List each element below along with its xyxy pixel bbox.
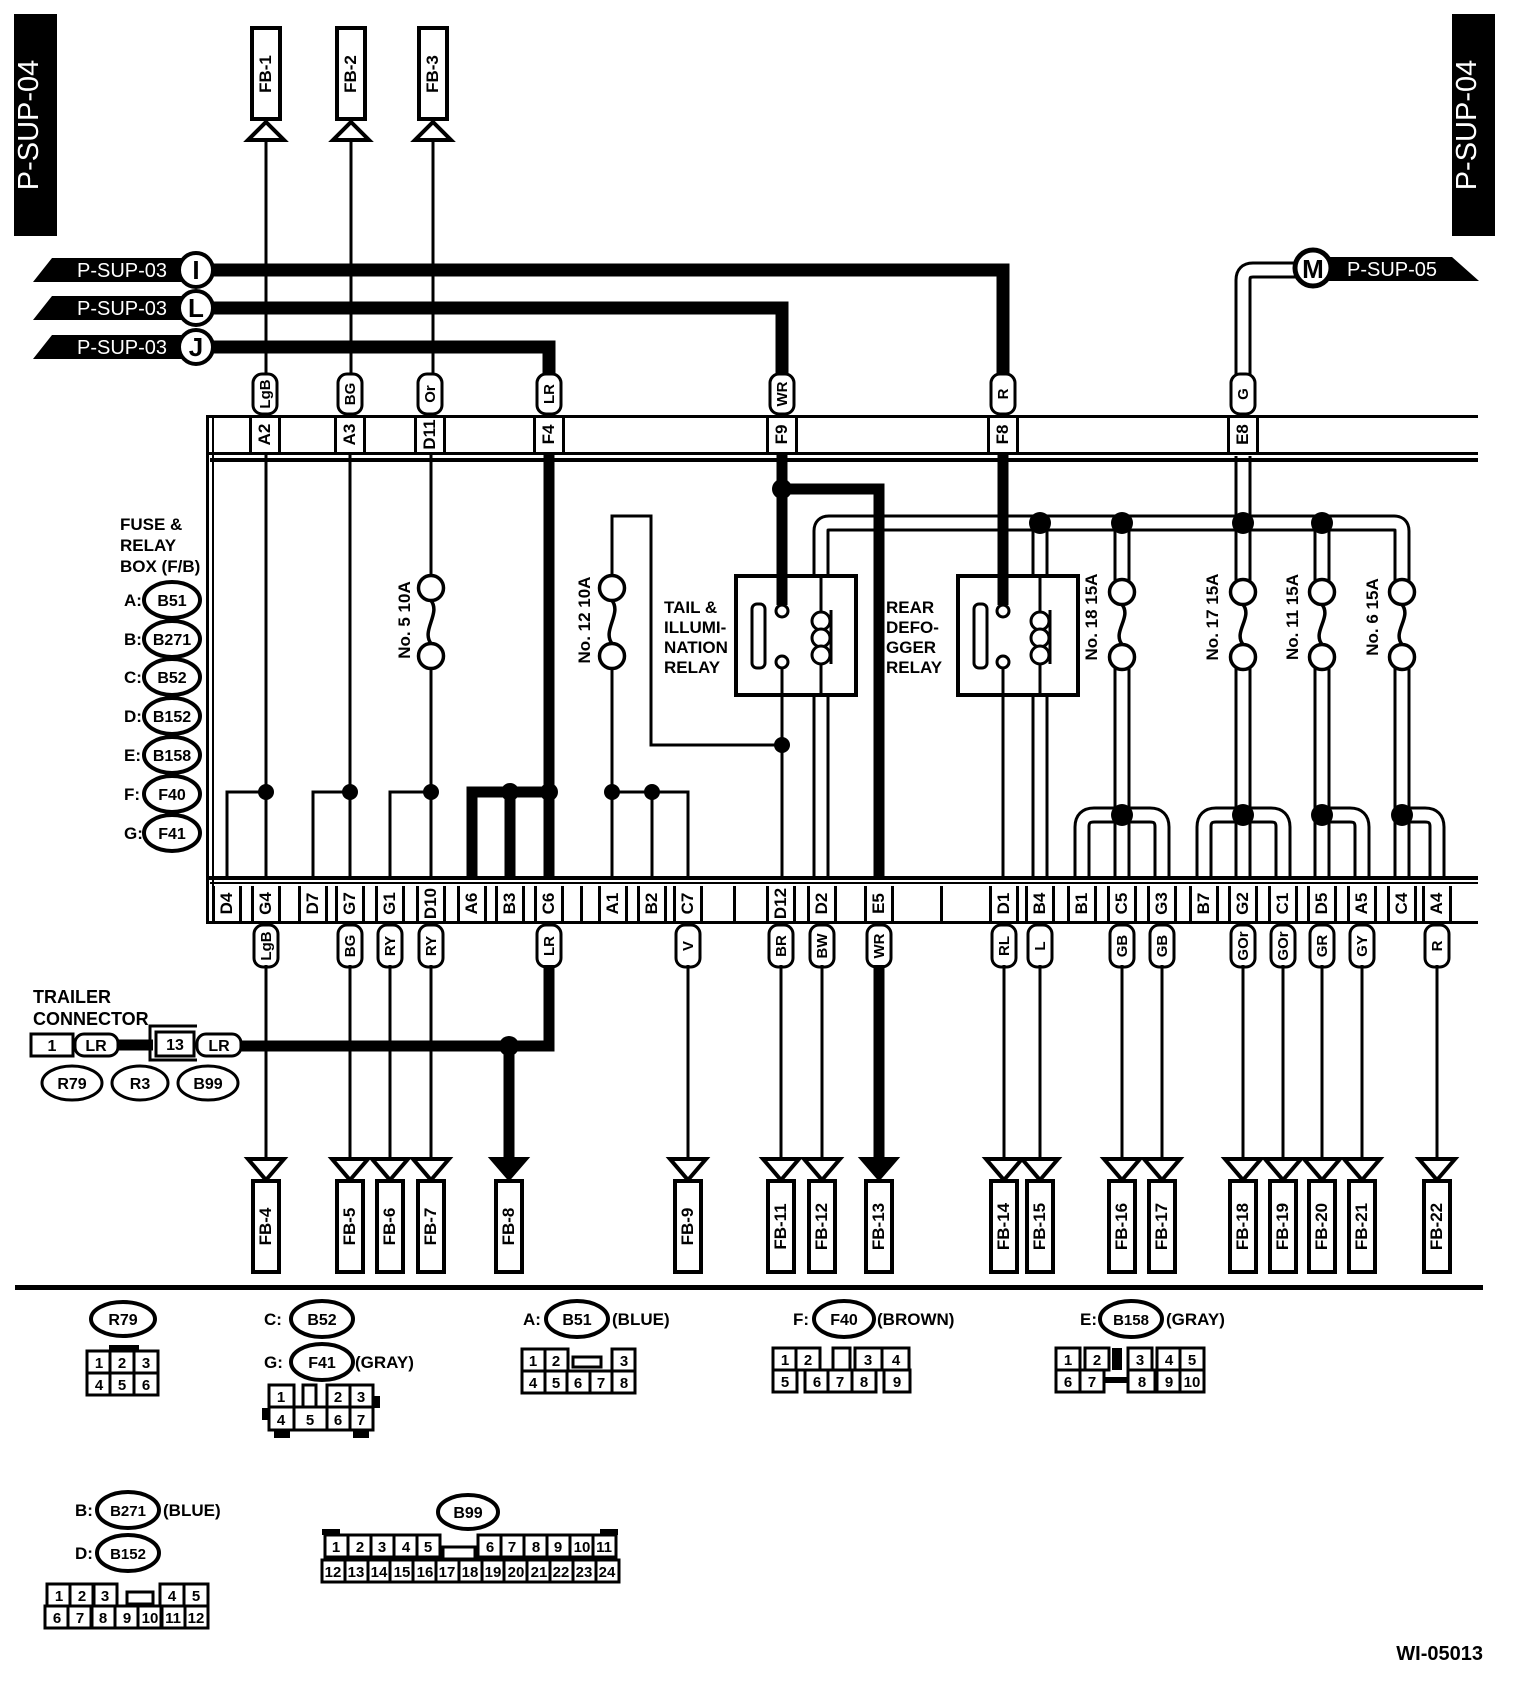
svg-text:G:: G:	[124, 824, 143, 843]
bus terminal A1	[580, 886, 628, 921]
wire colour tag LR (4)	[537, 925, 561, 967]
svg-text:2: 2	[552, 1353, 560, 1370]
hollow wire branch to G3	[1122, 815, 1162, 876]
svg-text:I: I	[192, 255, 199, 285]
svg-text:B99: B99	[193, 1076, 222, 1093]
svg-text:4: 4	[168, 1588, 177, 1605]
connector B: B271 (BLUE)	[75, 1492, 221, 1528]
connector R3 (trailer)	[112, 1066, 168, 1100]
svg-text:6: 6	[142, 1377, 150, 1394]
junction tail/defogger coil node	[1029, 512, 1051, 534]
connector FB-21	[1344, 1159, 1380, 1272]
wire FB-1 to bus	[265, 140, 268, 378]
svg-text:B51: B51	[157, 593, 186, 610]
fuse No. 12 10A	[575, 576, 625, 669]
wire colour tag GOr (13)	[1231, 925, 1255, 967]
svg-text:3: 3	[142, 1355, 150, 1372]
svg-text:F9: F9	[772, 425, 791, 445]
svg-text:LR: LR	[208, 1038, 230, 1055]
svg-text:L: L	[1032, 941, 1049, 950]
svg-text:BG: BG	[342, 383, 359, 406]
wire to FB-4	[265, 965, 268, 1158]
page label P-SUP-04 (top right)	[1451, 14, 1495, 236]
wire colour tag BG (1)	[338, 925, 362, 967]
connector legend A: B51	[124, 582, 200, 618]
svg-text:R79: R79	[57, 1076, 86, 1093]
svg-text:FB-6: FB-6	[380, 1208, 399, 1246]
svg-text:8: 8	[1138, 1374, 1146, 1391]
svg-text:A5: A5	[1352, 893, 1371, 915]
fuse box bottom bus bar	[206, 876, 1478, 924]
svg-text:19: 19	[485, 1564, 502, 1581]
svg-text:B51: B51	[562, 1312, 591, 1329]
svg-text:6: 6	[53, 1610, 61, 1627]
wire F8 to rear defogger relay (thick)	[998, 453, 1009, 606]
fuse No. 17 15A	[1203, 574, 1256, 670]
svg-text:B52: B52	[157, 670, 186, 687]
svg-text:D2: D2	[812, 893, 831, 915]
wire A6/B3 branch (thick)	[472, 792, 549, 876]
svg-text:BR: BR	[773, 935, 790, 957]
connector E: B158 (GRAY) pinout	[1056, 1301, 1225, 1392]
fuse No. 18 15A	[1082, 574, 1135, 670]
svg-text:21: 21	[531, 1564, 548, 1581]
svg-text:C1: C1	[1273, 893, 1292, 915]
svg-text:NATION: NATION	[664, 638, 728, 657]
connector R79 (trailer)	[42, 1066, 102, 1100]
svg-text:11: 11	[596, 1539, 612, 1556]
svg-text:22: 22	[553, 1564, 570, 1581]
svg-text:5: 5	[1188, 1352, 1196, 1369]
node C6	[540, 783, 558, 801]
trailer connector pin 1	[31, 1034, 73, 1056]
svg-text:B:: B:	[75, 1501, 93, 1520]
svg-text:P-SUP-04: P-SUP-04	[13, 60, 45, 191]
fuse No. 11 15A	[1283, 574, 1335, 670]
svg-text:9: 9	[893, 1374, 901, 1391]
svg-text:FB-2: FB-2	[341, 55, 360, 93]
wire colour tag BG	[338, 374, 362, 414]
svg-text:1: 1	[529, 1353, 537, 1370]
connector FB-7	[413, 1159, 449, 1272]
svg-text:F40: F40	[158, 787, 186, 804]
svg-text:1: 1	[1064, 1352, 1072, 1369]
connector FB-17	[1144, 1159, 1180, 1272]
wire fuse No.12 to A1	[611, 666, 614, 876]
bus terminal F4	[533, 418, 565, 452]
separator line	[15, 1285, 1483, 1290]
hollow wire rear defogger coil to B4	[1032, 695, 1049, 876]
wire colour tag GB (12)	[1150, 925, 1174, 967]
svg-text:D:: D:	[75, 1544, 93, 1563]
svg-text:D5: D5	[1312, 893, 1331, 915]
wire L to F9	[213, 308, 782, 378]
svg-text:TRAILER: TRAILER	[33, 987, 111, 1007]
fuse & relay box label	[120, 515, 200, 576]
off-page arrow P-SUP-03 (J)	[33, 330, 213, 364]
wire to FB-20	[1321, 965, 1324, 1158]
svg-text:4: 4	[529, 1375, 538, 1392]
svg-text:GB: GB	[1154, 935, 1171, 958]
bus terminal D12	[733, 886, 796, 921]
wire FB-2 to bus	[350, 140, 353, 378]
off-page arrow P-SUP-03 (L)	[33, 291, 213, 325]
svg-text:LgB: LgB	[258, 931, 275, 960]
svg-text:C7: C7	[678, 893, 697, 915]
connector FB-11	[763, 1159, 799, 1272]
svg-text:2: 2	[78, 1588, 86, 1605]
wire colour tag LR (trailer 13)	[197, 1034, 241, 1056]
svg-text:FB-11: FB-11	[771, 1203, 790, 1249]
bus terminal A5	[1347, 886, 1377, 921]
svg-text:2: 2	[1093, 1352, 1101, 1369]
svg-text:4: 4	[95, 1377, 104, 1394]
wire colour tag RY (2)	[378, 925, 402, 967]
hollow wire fuse No.18 feed	[1114, 523, 1131, 586]
svg-text:1: 1	[55, 1588, 63, 1605]
svg-text:FB-19: FB-19	[1273, 1203, 1292, 1250]
wire A2 to G4	[265, 453, 268, 876]
svg-text:P-SUP-04: P-SUP-04	[1451, 60, 1483, 191]
wire colour tag BR (6)	[769, 925, 793, 967]
svg-text:B52: B52	[307, 1312, 336, 1329]
svg-text:B152: B152	[153, 709, 191, 726]
svg-text:FB-4: FB-4	[256, 1207, 275, 1245]
svg-text:9: 9	[1165, 1374, 1173, 1391]
bus terminal D1	[940, 886, 1019, 921]
svg-text:2: 2	[334, 1389, 342, 1406]
connector FB-3	[415, 28, 451, 140]
bus terminal A6	[457, 886, 487, 921]
junction fuse 11 output node	[1311, 804, 1333, 826]
connector FB-19	[1265, 1159, 1301, 1272]
connector FB-1	[248, 28, 284, 140]
svg-text:D:: D:	[124, 707, 142, 726]
svg-text:7: 7	[76, 1610, 84, 1627]
bus terminal A3	[334, 418, 366, 452]
svg-text:9: 9	[554, 1539, 562, 1556]
svg-text:2: 2	[356, 1539, 364, 1556]
hollow wire fuse No.6 to C4	[1394, 663, 1411, 876]
svg-text:A3: A3	[340, 424, 359, 446]
off-page arrow P-SUP-03 (I)	[33, 253, 213, 287]
svg-text:C:: C:	[264, 1310, 282, 1329]
bus terminal F9	[766, 418, 798, 452]
svg-text:P-SUP-03: P-SUP-03	[77, 298, 167, 320]
svg-text:3: 3	[864, 1352, 872, 1369]
svg-text:GY: GY	[1354, 935, 1371, 957]
wire rear defogger relay to D1	[1002, 667, 1005, 876]
svg-text:F41: F41	[158, 826, 186, 843]
svg-text:FB-14: FB-14	[994, 1202, 1013, 1250]
connector FB-6	[372, 1159, 408, 1272]
svg-text:C6: C6	[539, 893, 558, 915]
wire J to F4	[213, 347, 549, 378]
svg-text:8: 8	[99, 1610, 107, 1627]
connector FB-2	[333, 28, 369, 140]
bus terminal B3	[495, 886, 525, 921]
bus terminal D10	[416, 886, 446, 921]
bus terminal D11	[414, 418, 446, 452]
wire colour tag LgB	[253, 374, 277, 414]
svg-text:5: 5	[118, 1377, 126, 1394]
connector B99 (trailer)	[178, 1066, 238, 1100]
svg-text:FB-13: FB-13	[869, 1203, 888, 1250]
wire to FB-5	[349, 965, 352, 1158]
svg-text:G7: G7	[340, 892, 359, 915]
hollow wire branch to B7	[1204, 815, 1243, 876]
drawing number WI-05013	[1396, 1643, 1483, 1665]
wire colour tag R (17)	[1425, 925, 1449, 967]
svg-text:FB-7: FB-7	[421, 1208, 440, 1246]
wire to FB-13	[874, 965, 885, 1158]
svg-text:E8: E8	[1233, 424, 1252, 445]
svg-text:LR: LR	[541, 384, 558, 404]
connector G: F41 (GRAY) pinout	[262, 1344, 414, 1438]
connector FB-22	[1419, 1159, 1455, 1272]
svg-text:1: 1	[95, 1355, 103, 1372]
wire colour tag GR (15)	[1310, 925, 1334, 967]
svg-text:No. 12 10A: No. 12 10A	[575, 577, 594, 664]
hollow wire fuse No.11 feed	[1314, 523, 1331, 586]
svg-text:No. 6 15A: No. 6 15A	[1363, 578, 1382, 655]
connector legend E: B158	[124, 737, 200, 773]
svg-text:4: 4	[1165, 1352, 1174, 1369]
hollow wire branch to C1	[1243, 815, 1283, 876]
svg-text:LR: LR	[85, 1038, 107, 1055]
trailer connector pin 13	[150, 1026, 197, 1060]
svg-text:E:: E:	[124, 746, 141, 765]
svg-text:BG: BG	[342, 935, 359, 958]
svg-text:WR: WR	[774, 381, 791, 406]
bus terminal F8	[987, 418, 1019, 452]
svg-text:(BROWN): (BROWN)	[877, 1310, 954, 1329]
svg-text:5: 5	[781, 1374, 789, 1391]
svg-text:BW: BW	[814, 933, 831, 959]
wire D11 to fuse No.5	[430, 453, 433, 578]
svg-text:10: 10	[574, 1539, 591, 1556]
wire fuse No.5 to D10	[430, 666, 433, 876]
svg-text:20: 20	[508, 1564, 525, 1581]
svg-text:B:: B:	[124, 630, 142, 649]
svg-text:No. 17 15A: No. 17 15A	[1203, 574, 1222, 661]
svg-text:F4: F4	[539, 424, 558, 444]
svg-text:RY: RY	[382, 936, 399, 956]
fuse box top bus bar	[206, 415, 1478, 462]
wire colour tag G	[1231, 374, 1255, 414]
svg-text:B271: B271	[153, 632, 191, 649]
svg-text:E5: E5	[869, 893, 888, 914]
svg-text:M: M	[1302, 254, 1324, 284]
wire to FB-9	[687, 965, 690, 1158]
svg-text:(BLUE): (BLUE)	[612, 1310, 670, 1329]
svg-text:RELAY: RELAY	[664, 658, 721, 677]
svg-text:FUSE &: FUSE &	[120, 515, 182, 534]
svg-text:F:: F:	[124, 785, 140, 804]
svg-text:12: 12	[325, 1564, 342, 1581]
wire colour tag BW (7)	[810, 925, 834, 967]
junction fuse 17 / E8 node	[1232, 512, 1254, 534]
connector legend G: F41	[124, 815, 200, 851]
svg-text:7: 7	[1088, 1374, 1096, 1391]
svg-text:R79: R79	[108, 1312, 137, 1329]
svg-text:LR: LR	[541, 936, 558, 956]
svg-text:B1: B1	[1072, 893, 1091, 915]
bus terminal C4	[1387, 886, 1417, 921]
svg-text:GOr: GOr	[1275, 931, 1292, 960]
svg-text:7: 7	[597, 1375, 605, 1392]
svg-text:No. 11 15A: No. 11 15A	[1283, 574, 1302, 660]
svg-text:9: 9	[123, 1610, 131, 1627]
bus terminal E5	[864, 886, 894, 921]
page label P-SUP-04 (top left)	[13, 14, 57, 236]
fuse No. 6 15A	[1363, 578, 1415, 669]
svg-text:V: V	[680, 941, 697, 951]
connector legend F: F40	[124, 776, 200, 812]
svg-text:1: 1	[781, 1352, 789, 1369]
wire tail relay to D12	[781, 667, 784, 876]
wire to FB-7	[430, 965, 433, 1158]
connector FB-13	[860, 1158, 898, 1272]
node B3	[501, 783, 519, 801]
svg-text:R: R	[995, 388, 1012, 399]
svg-text:G1: G1	[380, 892, 399, 915]
svg-text:L: L	[188, 293, 204, 323]
svg-text:A1: A1	[603, 893, 622, 915]
junction fuse 18 node	[1111, 512, 1133, 534]
svg-text:FB-18: FB-18	[1233, 1203, 1252, 1250]
bus terminal B2	[637, 886, 667, 921]
hollow wire E8 to M	[1243, 270, 1297, 380]
svg-text:B3: B3	[500, 893, 519, 915]
connector FB-4	[248, 1159, 284, 1272]
svg-text:FB-5: FB-5	[340, 1208, 359, 1246]
svg-text:10: 10	[1184, 1374, 1201, 1391]
svg-text:FB-17: FB-17	[1152, 1203, 1171, 1250]
wire to FB-6	[389, 965, 392, 1158]
svg-text:BOX (F/B): BOX (F/B)	[120, 557, 200, 576]
svg-text:G2: G2	[1233, 892, 1252, 915]
svg-text:G4: G4	[256, 892, 275, 915]
wire F4 to C6 (thick)	[544, 453, 555, 876]
wire to FB-22	[1436, 965, 1439, 1158]
svg-text:A:: A:	[124, 591, 142, 610]
hollow wire fuse No.18 to C5	[1114, 663, 1131, 876]
svg-text:FB-12: FB-12	[812, 1203, 831, 1250]
svg-text:3: 3	[101, 1588, 109, 1605]
svg-text:3: 3	[378, 1539, 386, 1556]
svg-text:2: 2	[118, 1355, 126, 1372]
svg-text:1: 1	[48, 1038, 57, 1055]
svg-text:4: 4	[402, 1539, 411, 1556]
connector R79 pinout	[87, 1302, 158, 1395]
connector FB-18	[1225, 1159, 1261, 1272]
bus terminal C1	[1268, 886, 1298, 921]
svg-text:FB-3: FB-3	[423, 55, 442, 93]
svg-text:P-SUP-03: P-SUP-03	[77, 337, 167, 359]
svg-text:REAR: REAR	[886, 598, 934, 617]
bus terminal D4	[212, 886, 242, 921]
connector FB-5	[332, 1159, 368, 1272]
wire to FB-21	[1361, 965, 1364, 1158]
node A2/D4	[258, 784, 274, 800]
node tail relay output	[774, 737, 790, 753]
connector F: F40 (BROWN) pinout	[773, 1301, 954, 1392]
connector B99 pinout	[322, 1495, 619, 1582]
wire colour tag GY (16)	[1350, 925, 1374, 967]
svg-text:R3: R3	[130, 1076, 151, 1093]
svg-text:P-SUP-03: P-SUP-03	[77, 260, 167, 282]
wire colour tag WR (8)	[867, 925, 891, 967]
svg-text:FB-9: FB-9	[678, 1208, 697, 1246]
svg-text:D10: D10	[421, 888, 440, 919]
svg-text:23: 23	[576, 1564, 593, 1581]
svg-text:FB-15: FB-15	[1030, 1203, 1049, 1250]
svg-text:FB-16: FB-16	[1112, 1203, 1131, 1250]
connector FB-15	[1022, 1159, 1058, 1272]
svg-text:RELAY: RELAY	[886, 658, 943, 677]
wire colour tag L (10)	[1028, 925, 1052, 967]
junction fuse 18 output node	[1111, 804, 1133, 826]
svg-text:6: 6	[813, 1374, 821, 1391]
wire to FB-18	[1242, 965, 1245, 1158]
svg-text:Or: Or	[422, 385, 439, 403]
svg-text:FB-20: FB-20	[1312, 1203, 1331, 1250]
svg-text:GOr: GOr	[1235, 931, 1252, 960]
svg-text:4: 4	[277, 1412, 286, 1429]
svg-text:5: 5	[424, 1539, 432, 1556]
svg-text:FB-8: FB-8	[499, 1208, 518, 1246]
svg-text:B158: B158	[1113, 1312, 1149, 1329]
svg-text:16: 16	[417, 1564, 434, 1581]
wire I to F8	[213, 270, 1003, 378]
wire to FB-16	[1121, 965, 1124, 1158]
svg-text:5: 5	[192, 1588, 200, 1605]
node B2	[644, 784, 660, 800]
svg-text:3: 3	[357, 1389, 365, 1406]
connector C: B52	[264, 1301, 353, 1337]
bus terminal G1	[375, 886, 405, 921]
svg-text:D11: D11	[420, 419, 439, 449]
wire colour tag WR	[770, 374, 794, 414]
wire to FB-17	[1161, 965, 1164, 1158]
svg-text:RL: RL	[996, 936, 1013, 956]
svg-text:7: 7	[357, 1412, 365, 1429]
node A3/D7	[342, 784, 358, 800]
svg-text:7: 7	[508, 1539, 516, 1556]
connector FB-14	[986, 1159, 1022, 1272]
connector FB-16	[1104, 1159, 1140, 1272]
svg-text:B99: B99	[453, 1505, 482, 1522]
svg-text:GGER: GGER	[886, 638, 936, 657]
svg-text:12: 12	[188, 1610, 205, 1627]
svg-text:7: 7	[836, 1374, 844, 1391]
svg-text:FB-22: FB-22	[1427, 1203, 1446, 1250]
svg-text:LgB: LgB	[257, 379, 274, 408]
wire C6/LR to FB-8 (thick)	[509, 965, 549, 1158]
bus terminal A2	[249, 418, 281, 452]
svg-text:8: 8	[860, 1374, 868, 1391]
connector FB-8	[490, 1158, 528, 1272]
wire colour tag LR (trailer 1)	[75, 1034, 118, 1056]
connector FB-20	[1304, 1159, 1340, 1272]
node D10/G1	[423, 784, 439, 800]
hollow wire tail relay coil feed	[821, 523, 1402, 586]
node FB-8 / trailer	[499, 1036, 519, 1056]
svg-text:A:: A:	[523, 1310, 541, 1329]
svg-text:1: 1	[332, 1539, 340, 1556]
wire trailer connector	[117, 1040, 153, 1051]
